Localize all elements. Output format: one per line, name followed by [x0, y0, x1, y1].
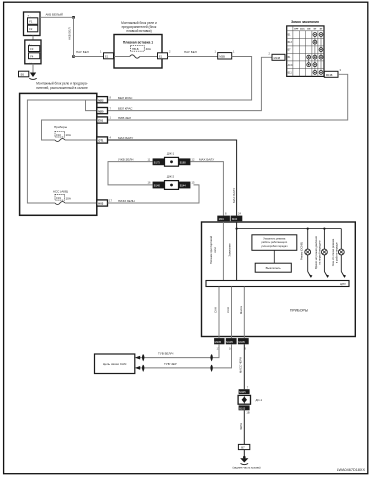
connector NOZ — [97, 200, 108, 206]
connector M22 on fuse box edge — [97, 97, 108, 103]
connector at fusible link box left — [104, 53, 114, 59]
fusible link F3 — [29, 46, 40, 52]
lamp feed wire — [237, 228, 342, 230]
svg-text:М22: М22 — [98, 98, 104, 102]
svg-text:МАХ БАЛУ: МАХ БАЛУ — [118, 136, 133, 140]
svg-text:LWA0467D18XX: LWA0467D18XX — [337, 468, 366, 472]
svg-text:OFF: OFF — [294, 28, 299, 30]
svg-text:на первой передаче: на первой передаче — [317, 240, 321, 265]
wire fuse box M25 up to ignition switch B terminal — [108, 57, 273, 110]
svg-text:F10: F10 — [56, 133, 61, 137]
fusible link F1 — [28, 18, 38, 25]
ignition switch grid lines — [287, 26, 324, 77]
svg-text:АСС: АСС — [288, 64, 293, 67]
svg-text:ДЖ-1: ДЖ-1 — [167, 152, 175, 156]
svg-text:ТУВ БЕЛ/Ч: ТУВ БЕЛ/Ч — [158, 351, 173, 355]
svg-text:М138: М138 — [326, 73, 333, 77]
svg-text:+ .: + . — [28, 14, 32, 18]
ground wire to ground point — [243, 450, 245, 458]
interior fuse box — [20, 93, 97, 215]
svg-text:Питание при бортовой: Питание при бортовой — [209, 235, 213, 264]
internal supply wire (left, gray) — [222, 222, 224, 281]
svg-text:МЗВ: МЗВ — [219, 54, 225, 58]
fuse ACC dashed ref box — [55, 194, 65, 200]
inline connector M105 (black) — [239, 389, 250, 394]
svg-text:1В: 1В — [246, 410, 249, 414]
svg-text:БЕЛ КРАС: БЕЛ КРАС — [118, 96, 133, 100]
indicator lamp 1 branch — [308, 229, 311, 277]
svg-text:В144: В144 — [180, 184, 187, 188]
cluster top connector M34 (right) — [231, 216, 243, 222]
indicator lamp 3 branch — [341, 229, 344, 277]
svg-text:ПРИБОРЫ: ПРИБОРЫ — [290, 309, 308, 313]
svg-text:В105: В105 — [239, 406, 246, 410]
svg-text:узла коробки передач: узла коробки передач — [261, 244, 288, 248]
svg-text:в работе передач: в работе передач — [334, 241, 338, 263]
svg-text:40А: 40А — [146, 47, 151, 51]
twisted pair marker x211 bottom — [211, 365, 213, 371]
svg-text:М25: М25 — [98, 109, 104, 113]
svg-text:10А: 10А — [66, 196, 71, 200]
ground (battery) — [30, 73, 36, 78]
ground wire below bar — [243, 287, 245, 339]
svg-text:В175: В175 — [154, 160, 161, 164]
twisted pair marker x143 top — [142, 355, 144, 361]
svg-text:сети: сети — [214, 247, 217, 253]
svg-text:Указ об отказе режима: Указ об отказе режима — [331, 238, 335, 266]
internal ignition wire (right, dark) — [236, 222, 238, 281]
CAN-H wire to CAN box — [139, 344, 219, 357]
svg-text:М105: М105 — [238, 340, 245, 344]
svg-text:Указатель режима: Указатель режима — [263, 237, 286, 241]
svg-text:МАХ БАЛУ: МАХ БАЛУ — [232, 188, 236, 203]
svg-text:М105: М105 — [239, 390, 246, 394]
svg-text:В180: В180 — [180, 160, 187, 164]
svg-text:ACC: ACC — [300, 27, 305, 30]
wire fuse ACC to NOZ connector — [65, 202, 97, 204]
cluster bottom connector 1 (black) — [214, 338, 224, 344]
buzzer box — [255, 263, 291, 272]
fusible link F2 — [28, 25, 38, 32]
svg-text:. .: . . — [30, 60, 33, 64]
CAN-L arrowhead — [135, 366, 140, 370]
fuse Pribory dashed ref box — [55, 131, 65, 137]
svg-text:В7: В7 — [241, 446, 245, 450]
ignition switch row labels — [288, 34, 293, 75]
bus branch to M25 — [86, 100, 97, 111]
ground symbol (body ground) — [240, 458, 248, 462]
connector M25 — [97, 108, 108, 114]
wire JC-1 output to cluster — [191, 162, 224, 216]
connector M38 ignition switch bottom right — [324, 71, 338, 77]
svg-text:E1: E1 — [159, 54, 163, 58]
wire NOZ to JC-2 — [108, 185, 200, 203]
wire through fusible link box — [114, 56, 130, 58]
wire fusible link to ignition switch feed — [168, 56, 218, 58]
fuse Pribory element — [55, 138, 65, 141]
wire battery positive to fusible link box — [72, 16, 75, 19]
svg-text:ОТ1: ОТ1 — [98, 139, 104, 143]
connector M38 ignition switch left — [272, 54, 285, 60]
ground wire from cluster — [243, 344, 245, 389]
svg-text:E1: E1 — [105, 54, 109, 58]
battery fusible-link holder box 2 — [25, 40, 41, 64]
connector E01 — [97, 117, 108, 123]
svg-text:Замок зажигания: Замок зажигания — [291, 20, 319, 24]
joint connector JC-1 — [153, 157, 191, 166]
svg-text:E6: E6 — [21, 72, 25, 76]
wire battery box2 to ground — [32, 64, 34, 73]
CAN-H wire below bar — [218, 287, 220, 339]
svg-text:F19: F19 — [56, 196, 61, 200]
fuse ACC element — [55, 201, 65, 204]
cluster top connector M34 (left) — [217, 216, 230, 222]
svg-text:М105: М105 — [215, 340, 222, 344]
svg-text:ДЖ-2: ДЖ-2 — [167, 175, 175, 179]
svg-text:МАХ БАЛУ: МАХ БАЛУ — [199, 157, 214, 161]
svg-text:ПАУ БЕЛ: ПАУ БЕЛ — [76, 50, 89, 54]
svg-text:нителей, расположенный в салон: нителей, расположенный в салоне — [36, 86, 88, 90]
U-link wire JC-1 left to JC-2 left — [108, 162, 153, 185]
svg-text:Приборы: Приборы — [54, 125, 68, 129]
svg-text:Цепь связи CAN: Цепь связи CAN — [103, 362, 127, 366]
CAN-L wire below bar — [231, 287, 233, 339]
svg-text:АКБ БЕЛ: АКБ БЕЛ — [67, 27, 71, 40]
svg-text:плавкой вставки): плавкой вставки) — [126, 29, 151, 33]
twisted pair marker x143 bottom — [142, 365, 144, 371]
svg-text:Б13: Б13 — [288, 41, 293, 44]
fuse Pribory circuit loop — [42, 120, 97, 140]
fusible link element symbol — [130, 55, 140, 58]
inline connector M1 on battery feed — [218, 53, 232, 59]
svg-text:ЧЕРН: ЧЕРН — [239, 423, 243, 430]
svg-text:Б11: Б11 — [288, 71, 293, 74]
ignition switch header labels — [294, 27, 323, 30]
svg-text:Масса: Масса — [239, 306, 243, 314]
svg-text:. .: . . — [29, 32, 32, 36]
svg-text:Н03: Н03 — [98, 202, 103, 206]
CAN-L wire to CAN box — [139, 344, 232, 368]
indicator lamp 2 branch — [324, 229, 327, 277]
svg-text:ПВ-Б: ПВ-Б — [132, 47, 139, 51]
svg-text:Е01: Е01 — [98, 119, 103, 123]
svg-text:САН: САН — [214, 307, 218, 313]
svg-text:Время затухания давления: Время затухания давления — [314, 235, 318, 268]
ignition switch contacts (circles) — [307, 33, 323, 75]
ground wire continues — [243, 410, 245, 444]
svg-text:Режим (ОСНВ): Режим (ОСНВ) — [300, 242, 304, 260]
inline connector B105 (black) — [239, 405, 250, 410]
inline connector junction symbol box — [238, 395, 250, 404]
wire M1 to corner, down and left into fuse box M22 — [108, 57, 252, 101]
svg-text:10А: 10А — [66, 133, 71, 137]
fuse box internal battery bus — [27, 100, 96, 203]
svg-text:Выклатель: Выклатель — [266, 266, 282, 270]
indicator control sub-box — [252, 235, 297, 251]
fusible link dashed ref box — [131, 46, 145, 52]
twisted pair marker x211 top — [211, 355, 213, 361]
fusible link F4 — [29, 53, 40, 59]
junction dots on lamp feed — [307, 228, 309, 230]
battery fusible-link holder box 1 — [24, 12, 41, 36]
svg-text:ПАУ БЕЛ: ПАУ БЕЛ — [184, 50, 197, 54]
connector B7 — [238, 444, 249, 449]
link sub-box to buzzer — [273, 250, 275, 263]
svg-text:Зажигание: Зажигание — [228, 243, 232, 257]
cluster bottom connector 3 (black) — [238, 338, 249, 344]
CPU bar — [206, 281, 349, 287]
connector at fusible link box right — [158, 53, 168, 59]
svg-text:М34: М34 — [232, 217, 238, 221]
svg-text:М105: М105 — [226, 340, 233, 344]
svg-text:УЖВ ЗЕЛН: УЖВ ЗЕЛН — [118, 157, 133, 161]
svg-text:Плавкая вставка 1: Плавкая вставка 1 — [123, 41, 153, 45]
svg-text:ЦПУ: ЦПУ — [340, 282, 346, 286]
junction dot at ground — [243, 456, 246, 459]
svg-text:(задняя часть кузова): (задняя часть кузова) — [232, 466, 260, 470]
svg-text:В140: В140 — [154, 184, 161, 188]
fusible link box — [114, 35, 162, 69]
svg-text:ПИЗЗ ЗЕЛН: ПИЗЗ ЗЕЛН — [118, 199, 135, 203]
svg-text:МАСС ЧЕРН: МАСС ЧЕРН — [238, 357, 242, 373]
svg-text:АКБ БЕЛЫЙ: АКБ БЕЛЫЙ — [46, 13, 63, 17]
svg-text:М138: М138 — [274, 56, 281, 60]
cluster bottom connector 2 (black) — [226, 338, 237, 344]
svg-text:САН: САН — [226, 307, 230, 313]
svg-text:ДС-1: ДС-1 — [256, 398, 263, 402]
wire OT1 to cluster (dark) — [108, 140, 237, 216]
ignition switch grid box — [287, 26, 324, 77]
wire battery box1 to box2 — [32, 36, 34, 41]
svg-text:ТУВ ЧЕР: ТУВ ЧЕР — [164, 362, 177, 366]
combination meter box — [202, 222, 356, 337]
joint connector JC-2 — [153, 181, 191, 190]
connector E6 at battery ground — [19, 71, 29, 77]
svg-text:АСС (АКБ): АСС (АКБ) — [53, 190, 68, 194]
svg-text:работы работающего: работы работающего — [261, 240, 287, 244]
svg-text:БЕЛ КРАС: БЕЛ КРАС — [118, 107, 133, 111]
connector OT1 — [97, 137, 108, 143]
svg-text:ON: ON — [307, 28, 311, 30]
CAN-H arrowhead — [135, 356, 140, 360]
svg-text:ПИВ ЗЕЛ: ПИВ ЗЕЛ — [118, 116, 131, 120]
ignition switch contact column lines — [309, 35, 321, 73]
CAN circuit box — [95, 354, 135, 374]
svg-text:М34: М34 — [219, 217, 225, 221]
wire ignition switch output down and left to fuse box E01 — [108, 74, 348, 120]
